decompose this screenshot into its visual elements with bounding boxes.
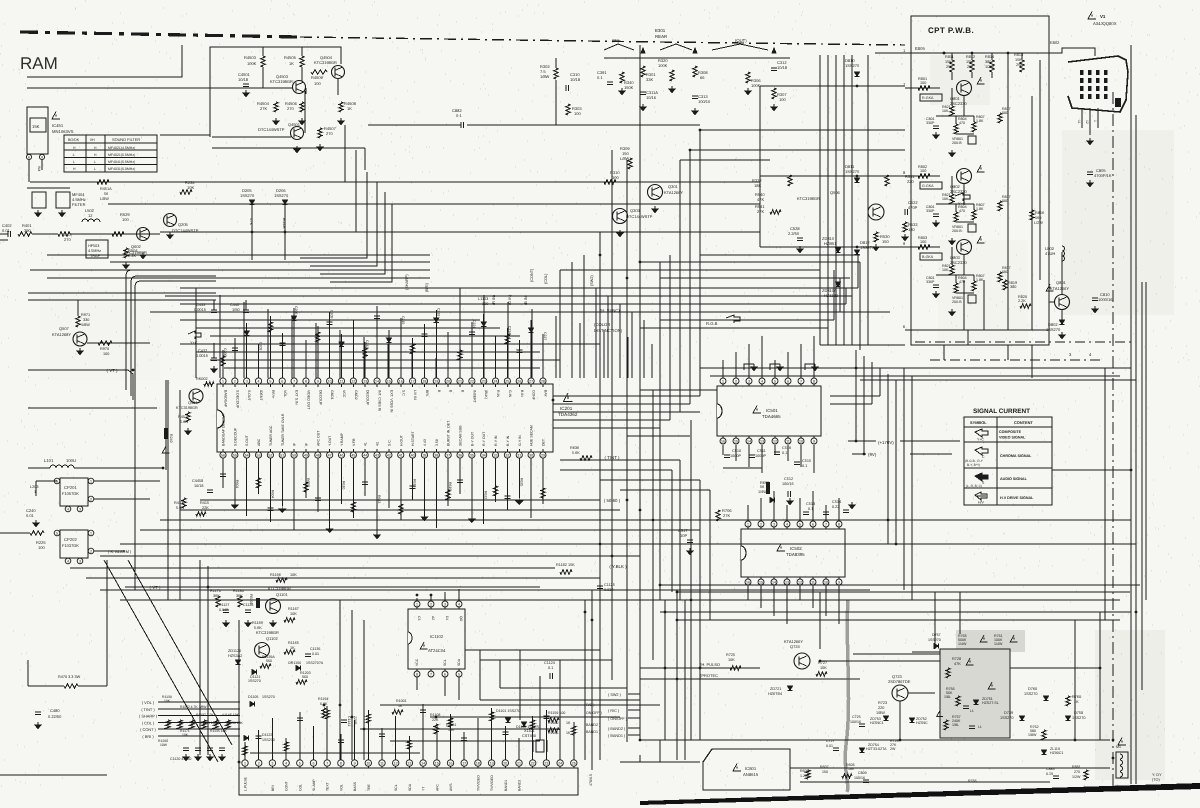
svg-text:10K: 10K bbox=[728, 658, 735, 662]
svg-text:MF4021(5.5MHz): MF4021(5.5MHz) bbox=[108, 153, 135, 157]
svg-text:9: 9 bbox=[813, 439, 815, 443]
transistor Q507 bbox=[73, 332, 87, 346]
svg-text:30: 30 bbox=[529, 453, 533, 457]
svg-text:BURST IN. DET.: BURST IN. DET. bbox=[447, 420, 451, 446]
svg-text:7: 7 bbox=[800, 379, 802, 383]
svg-text:KTC3198GR: KTC3198GR bbox=[270, 79, 293, 84]
IC801 body bbox=[703, 749, 790, 790]
capacitor C522 bbox=[904, 209, 906, 215]
IC501 label bbox=[753, 406, 761, 414]
svg-text:CP201: CP201 bbox=[64, 485, 77, 490]
svg-text:11: 11 bbox=[1077, 120, 1081, 124]
capacitor C313 bbox=[692, 95, 698, 97]
svg-text:4: 4 bbox=[67, 559, 69, 563]
svg-text:1SS270?A: 1SS270?A bbox=[306, 661, 324, 665]
transistor Q404 bbox=[189, 389, 203, 403]
diode D802 bbox=[1059, 320, 1064, 325]
svg-text:2: 2 bbox=[430, 602, 432, 606]
svg-text:100: 100 bbox=[482, 302, 488, 306]
transistor Q303 bbox=[613, 209, 628, 224]
filter MF404 bbox=[32, 192, 46, 208]
svg-text:9: 9 bbox=[41, 155, 43, 159]
svg-text:KTC3198GR: KTC3198GR bbox=[797, 196, 820, 201]
svg-text:COMPOSITE: COMPOSITE bbox=[999, 430, 1022, 434]
svg-text:47UH: 47UH bbox=[1045, 251, 1055, 256]
diode D758 bbox=[1065, 716, 1070, 721]
svg-text:8: 8 bbox=[813, 379, 815, 383]
svg-text:0.1: 0.1 bbox=[597, 75, 603, 80]
svg-text:5: 5 bbox=[458, 672, 460, 676]
svg-text:C1124: C1124 bbox=[544, 661, 555, 665]
capacitor C1135 bbox=[305, 653, 311, 655]
capacitor C528 bbox=[797, 237, 803, 239]
svg-text:1: 1 bbox=[90, 479, 92, 483]
svg-text:2.2K: 2.2K bbox=[1018, 299, 1026, 303]
gray streak scan artifact bbox=[845, 600, 848, 792]
svg-text:1K: 1K bbox=[289, 61, 294, 66]
svg-text:1: 1 bbox=[1093, 120, 1097, 122]
svg-text:2SD786TDE: 2SD786TDE bbox=[888, 679, 911, 684]
IC501 top pins bbox=[720, 378, 726, 384]
svg-text:D1102 1SS270: D1102 1SS270 bbox=[516, 725, 540, 729]
svg-text:R4509: R4509 bbox=[311, 75, 324, 80]
svg-text:HZS9C1: HZS9C1 bbox=[870, 721, 884, 725]
capacitor C727 bbox=[833, 747, 839, 749]
svg-text:11: 11 bbox=[380, 761, 384, 765]
wire VT row bbox=[125, 586, 540, 588]
svg-text:(+170V): (+170V) bbox=[878, 440, 894, 445]
svg-text:C1141: C1141 bbox=[347, 716, 351, 726]
svg-text:MF4021(4.5MHz): MF4021(4.5MHz) bbox=[108, 146, 135, 150]
svg-text:R1169: R1169 bbox=[252, 621, 263, 625]
svg-text:10: 10 bbox=[366, 761, 370, 765]
svg-text:2: 2 bbox=[258, 761, 260, 765]
svg-text:R723: R723 bbox=[878, 701, 887, 705]
svg-text:5: 5 bbox=[269, 379, 271, 383]
resistor R803 bbox=[918, 245, 930, 249]
svg-text:C1120 4.7/50: C1120 4.7/50 bbox=[170, 757, 191, 761]
svg-text:R1165: R1165 bbox=[288, 641, 299, 645]
svg-text:1/2W: 1/2W bbox=[1072, 775, 1081, 779]
svg-text:2SC2330: 2SC2330 bbox=[950, 101, 967, 106]
svg-text:330P: 330P bbox=[926, 280, 935, 284]
svg-text:6: 6 bbox=[281, 379, 283, 383]
svg-text:R-Y OUT: R-Y OUT bbox=[482, 431, 486, 446]
svg-text:21: 21 bbox=[458, 379, 462, 383]
svg-text:27K: 27K bbox=[723, 513, 730, 518]
svg-text:25: 25 bbox=[505, 379, 509, 383]
IC1102 top pins bbox=[414, 601, 420, 607]
svg-text:SCL: SCL bbox=[394, 784, 398, 791]
svg-text:33K: 33K bbox=[646, 77, 653, 82]
svg-text:4: 4 bbox=[786, 522, 788, 526]
svg-text:1: 1 bbox=[722, 379, 724, 383]
svg-text:4: 4 bbox=[1089, 352, 1092, 357]
svg-text:BANDGAP: BANDGAP bbox=[224, 390, 228, 408]
svg-text:10/18: 10/18 bbox=[570, 77, 581, 82]
svg-text:~: ~ bbox=[878, 84, 882, 90]
svg-text:1: 1 bbox=[416, 602, 418, 606]
svg-text:ABC: ABC bbox=[257, 438, 261, 446]
svg-text:H.START: H.START bbox=[411, 430, 415, 446]
wire top rail bbox=[210, 47, 341, 137]
page border dash-dot top bbox=[20, 32, 300, 37]
svg-text:4.43: 4.43 bbox=[423, 439, 427, 446]
svg-text:BASS: BASS bbox=[353, 781, 357, 791]
CPT resistor R814 bbox=[990, 60, 994, 72]
shaded box main bbox=[940, 649, 1010, 738]
diode D1101 bbox=[505, 718, 510, 723]
wire bbox=[27, 187, 70, 189]
resistor R1170 bbox=[216, 596, 220, 607]
resistor R320 bbox=[670, 70, 674, 81]
wire PROTEC bbox=[640, 678, 860, 680]
transistor Q801 2SC2330 bbox=[957, 81, 972, 96]
svg-text:23: 23 bbox=[482, 379, 486, 383]
svg-text:20: 20 bbox=[446, 379, 450, 383]
svg-text:270: 270 bbox=[287, 106, 294, 111]
diode D810 bbox=[854, 72, 859, 77]
svg-text:BAND1: BAND1 bbox=[504, 780, 508, 791]
svg-text:220P: 220P bbox=[353, 716, 357, 725]
svg-text:MN1063VS: MN1063VS bbox=[52, 129, 74, 134]
svg-text:29: 29 bbox=[541, 453, 545, 457]
resistor R1180 bbox=[238, 596, 242, 607]
IC1101 pins bbox=[242, 760, 248, 766]
svg-text:H/V: H/V bbox=[978, 501, 985, 505]
svg-text:TRE: TRE bbox=[367, 783, 371, 791]
svg-text:(COL): (COL) bbox=[544, 273, 548, 284]
svg-text:C221: C221 bbox=[472, 320, 476, 328]
svg-text:L: L bbox=[94, 160, 96, 164]
svg-text:2W: 2W bbox=[946, 65, 952, 69]
transistor Q205 bbox=[164, 214, 177, 227]
svg-text:1SS270: 1SS270 bbox=[928, 638, 941, 642]
wire socket leads bbox=[1081, 108, 1083, 128]
svg-text:~: ~ bbox=[878, 174, 882, 180]
ground bbox=[225, 620, 227, 623]
svg-text:BAY.: BAY. bbox=[543, 390, 547, 397]
svg-text:R760: R760 bbox=[1072, 695, 1081, 699]
svg-text:1: 1 bbox=[244, 761, 246, 765]
svg-text:DECOUP: DECOUP bbox=[366, 390, 370, 406]
vertical bundle x820-868 bbox=[819, 55, 821, 345]
svg-text:M1: M1 bbox=[1116, 745, 1121, 749]
transistor Q1101 bbox=[266, 599, 281, 614]
diode D812 bbox=[854, 250, 859, 255]
svg-text:0.0015: 0.0015 bbox=[196, 353, 208, 358]
svg-text:S: S bbox=[982, 481, 985, 485]
svg-text:0.1: 0.1 bbox=[808, 507, 813, 511]
svg-text:IC1102: IC1102 bbox=[430, 634, 444, 639]
svg-text:B.IN: B.IN bbox=[520, 390, 524, 397]
svg-text:( R/C ): ( R/C ) bbox=[608, 709, 620, 713]
wire C882 rail bbox=[368, 124, 461, 126]
svg-text:L: L bbox=[73, 160, 75, 164]
svg-text:( COL ): ( COL ) bbox=[142, 720, 155, 725]
wire Q723 bus bbox=[908, 692, 935, 694]
svg-text:Q301: Q301 bbox=[668, 184, 679, 189]
svg-text:12: 12 bbox=[773, 439, 777, 443]
connector IC451 bbox=[27, 107, 48, 154]
zener ZD721 bbox=[787, 686, 792, 691]
svg-text:6: 6 bbox=[444, 672, 446, 676]
svg-text:1/50: 1/50 bbox=[232, 307, 240, 312]
CPT inner verticals bbox=[1007, 53, 1009, 330]
IC502 bottom pins bbox=[745, 579, 751, 585]
svg-text:2: 2 bbox=[735, 379, 737, 383]
svg-text:C1125: C1125 bbox=[604, 583, 615, 587]
IC502 body bbox=[741, 529, 845, 577]
svg-text:10K: 10K bbox=[942, 197, 949, 201]
svg-text:150K: 150K bbox=[624, 85, 634, 90]
svg-text:( BRI ): ( BRI ) bbox=[142, 734, 154, 739]
IC201 notch bbox=[217, 410, 224, 428]
svg-text:1/8L: 1/8L bbox=[952, 723, 959, 727]
svg-text:Q4501: Q4501 bbox=[288, 122, 301, 127]
label VT wire bbox=[28, 369, 128, 371]
svg-text:56: 56 bbox=[221, 453, 225, 457]
capacitor C1125 bbox=[597, 585, 603, 587]
svg-text:BAND1 ): BAND1 ) bbox=[586, 730, 600, 734]
svg-text:D757: D757 bbox=[932, 633, 941, 637]
ground bbox=[142, 252, 144, 255]
svg-text:100: 100 bbox=[38, 545, 45, 550]
svg-text:17: 17 bbox=[462, 761, 466, 765]
svg-text:S.DECOUP: S.DECOUP bbox=[235, 390, 239, 409]
svg-text:47K: 47K bbox=[757, 197, 764, 202]
label Y+C arrow bbox=[188, 331, 201, 339]
resistor R760 bbox=[1066, 696, 1070, 706]
svg-text:R728: R728 bbox=[952, 657, 961, 661]
IC502 bottom drops bbox=[747, 585, 749, 600]
svg-text:I/H: I/H bbox=[90, 138, 95, 142]
svg-text:AFC OUT: AFC OUT bbox=[316, 430, 320, 446]
wires CPT right area bbox=[1049, 301, 1054, 303]
svg-text:INSERT: INSERT bbox=[472, 390, 476, 404]
svg-text:Y.OUT: Y.OUT bbox=[328, 435, 332, 446]
svg-text:35: 35 bbox=[470, 453, 474, 457]
svg-text:46: 46 bbox=[340, 453, 344, 457]
node M1 bbox=[1112, 757, 1115, 760]
svg-text:Q507: Q507 bbox=[59, 326, 70, 331]
svg-text:3: 3 bbox=[271, 761, 273, 765]
svg-text:FILTER: FILTER bbox=[72, 202, 86, 207]
svg-text:15K: 15K bbox=[966, 60, 973, 64]
resistor R306 bbox=[746, 72, 750, 83]
svg-text:R470 3.3 3W: R470 3.3 3W bbox=[58, 675, 81, 679]
svg-text:220: 220 bbox=[907, 179, 914, 184]
svg-text:R.G.B: R.G.B bbox=[706, 321, 718, 326]
svg-text:R.IN: R.IN bbox=[496, 390, 500, 397]
wire H.PULSO bbox=[640, 667, 760, 669]
svg-text:10: 10 bbox=[328, 379, 332, 383]
svg-text:(G IN): (G IN) bbox=[508, 294, 512, 305]
svg-text:C209: C209 bbox=[330, 310, 334, 318]
svg-text:E805: E805 bbox=[915, 46, 925, 51]
svg-text:L/8W: L/8W bbox=[620, 156, 630, 161]
svg-text:100: 100 bbox=[122, 217, 129, 222]
svg-text:L.PULSE: L.PULSE bbox=[244, 776, 248, 791]
svg-text:270: 270 bbox=[326, 131, 333, 136]
svg-text:3: 3 bbox=[444, 602, 446, 606]
svg-text:CPT P.W.B.: CPT P.W.B. bbox=[928, 26, 974, 35]
svg-text:R1182 15K: R1182 15K bbox=[556, 563, 575, 567]
svg-text:(PROTEC: (PROTEC bbox=[700, 673, 718, 678]
resistor R301 bbox=[641, 66, 645, 77]
svg-text:13: 13 bbox=[407, 761, 411, 765]
svg-text:R1151: R1151 bbox=[446, 723, 456, 727]
vertical wire bbox=[1135, 115, 1137, 784]
svg-text:13: 13 bbox=[785, 580, 789, 584]
label G-GKA bbox=[920, 182, 942, 189]
CPT stage verticals to bottom rail bbox=[963, 280, 965, 330]
IC501 body bbox=[717, 386, 821, 436]
svg-text:IN4: IN4 bbox=[37, 166, 41, 171]
svg-text:100: 100 bbox=[920, 81, 926, 85]
svg-text:12: 12 bbox=[351, 379, 355, 383]
transistor Q4503 bbox=[293, 81, 306, 94]
CPT bottom drops bbox=[943, 345, 945, 360]
svg-text:5: 5 bbox=[774, 379, 776, 383]
svg-text:IC201: IC201 bbox=[560, 406, 573, 411]
bus wires below IC201 going right bbox=[200, 499, 600, 501]
svg-text:R4505: R4505 bbox=[284, 55, 297, 60]
svg-text:CONTENT: CONTENT bbox=[1014, 420, 1033, 425]
svg-text:HZS2T-SL: HZS2T-SL bbox=[982, 701, 999, 705]
svg-text:D1: D1 bbox=[445, 616, 449, 620]
svg-text:0-1: 0-1 bbox=[456, 113, 463, 118]
ground bbox=[654, 206, 656, 209]
svg-text:TUNER AGC: TUNER AGC bbox=[269, 425, 273, 446]
wire bbox=[555, 58, 557, 68]
svg-text:3: 3 bbox=[1069, 352, 1072, 357]
transistor Q301 bbox=[648, 185, 663, 200]
svg-text:L1: L1 bbox=[970, 709, 974, 713]
CRT socket shell bbox=[1068, 56, 1128, 112]
svg-text:22K: 22K bbox=[432, 718, 439, 722]
svg-text:5.6K: 5.6K bbox=[572, 451, 580, 455]
svg-text:4: 4 bbox=[761, 379, 763, 383]
svg-text:1/4W: 1/4W bbox=[758, 490, 767, 494]
svg-text:15: 15 bbox=[759, 580, 763, 584]
svg-text:R613: R613 bbox=[377, 495, 381, 503]
svg-text:Q1102: Q1102 bbox=[266, 636, 278, 641]
transistor Q4504 bbox=[332, 66, 345, 79]
caps row controls bbox=[183, 747, 189, 749]
svg-text:VCC: VCC bbox=[342, 390, 346, 398]
warning triangle bbox=[1118, 738, 1126, 746]
svg-text:15: 15 bbox=[435, 761, 439, 765]
svg-text:32: 32 bbox=[505, 453, 509, 457]
svg-text:EXT S.IN: EXT S.IN bbox=[295, 390, 299, 405]
svg-text:R1166: R1166 bbox=[270, 573, 281, 577]
bus verticals above IC201 bbox=[195, 288, 197, 378]
svg-text:1: 1 bbox=[90, 531, 92, 535]
svg-text:1: 1 bbox=[747, 522, 749, 526]
svg-text:5: 5 bbox=[299, 761, 301, 765]
resistor R4504 bbox=[274, 102, 278, 112]
svg-text:L: L bbox=[73, 153, 75, 157]
svg-text:( K. ALARM ): ( K. ALARM ) bbox=[108, 549, 132, 554]
svg-text:27: 27 bbox=[529, 379, 533, 383]
svg-text:TDA4665: TDA4665 bbox=[762, 414, 781, 419]
sound filter table bbox=[64, 135, 157, 172]
diode ZD752 bbox=[909, 718, 914, 723]
svg-text:KTA1266Y: KTA1266Y bbox=[784, 639, 803, 644]
resistor R971 bbox=[76, 316, 80, 327]
svg-text:( TINT ): ( TINT ) bbox=[141, 707, 155, 712]
svg-text:R240: R240 bbox=[169, 434, 173, 443]
svg-text:41: 41 bbox=[364, 442, 368, 446]
svg-text:R604: R604 bbox=[270, 490, 274, 498]
svg-text:C516: C516 bbox=[782, 446, 791, 450]
svg-text:C1127: C1127 bbox=[219, 603, 229, 607]
svg-text:D1101 1SS270: D1101 1SS270 bbox=[496, 709, 520, 713]
wire bbox=[87, 342, 150, 344]
svg-text:ON/OFF ): ON/OFF ) bbox=[586, 711, 602, 715]
IC501 top risers bbox=[722, 360, 724, 378]
svg-text:2: 2 bbox=[760, 522, 762, 526]
svg-text:16: 16 bbox=[449, 761, 453, 765]
svg-text:( ON/OFF ): ( ON/OFF ) bbox=[608, 717, 628, 721]
wire bbox=[0, 239, 8, 241]
svg-text:CST400: CST400 bbox=[522, 734, 536, 738]
resistor R309 bbox=[628, 158, 632, 169]
svg-text:560: 560 bbox=[266, 659, 272, 663]
svg-text:HUE SECAM: HUE SECAM bbox=[530, 425, 534, 446]
svg-text:0.1: 0.1 bbox=[802, 464, 807, 468]
svg-text:42: 42 bbox=[387, 453, 391, 457]
svg-text:15: 15 bbox=[734, 439, 738, 443]
bus wires upper middle bbox=[364, 148, 366, 170]
wire bbox=[951, 53, 953, 60]
svg-text:2: 2 bbox=[90, 497, 92, 501]
wire corner top right bbox=[1094, 48, 1096, 56]
svg-text:R1194: R1194 bbox=[318, 697, 328, 701]
wire bottom left horizontal bbox=[0, 774, 107, 776]
svg-text:SDA: SDA bbox=[457, 658, 461, 666]
zener ZD810 bbox=[835, 248, 840, 253]
svg-text:( SHARP ): ( SHARP ) bbox=[139, 714, 158, 719]
svg-text:R1180: R1180 bbox=[233, 589, 244, 593]
svg-text:( VT ): ( VT ) bbox=[107, 368, 118, 373]
svg-text:38: 38 bbox=[434, 453, 438, 457]
svg-text:B: B bbox=[461, 390, 465, 393]
svg-text:TUNER TAKE OVLR: TUNER TAKE OVLR bbox=[281, 413, 285, 446]
svg-text:(9V): (9V) bbox=[868, 452, 877, 457]
svg-text:A34JQQ80X: A34JQQ80X bbox=[1093, 21, 1117, 26]
svg-text:BAND2: BAND2 bbox=[518, 780, 522, 791]
wire bbox=[128, 370, 133, 400]
svg-text:66: 66 bbox=[700, 75, 705, 80]
svg-text:45: 45 bbox=[351, 453, 355, 457]
wire bbox=[200, 87, 293, 89]
IC501 bottom pins bbox=[720, 438, 726, 444]
svg-text:C514: C514 bbox=[832, 500, 841, 504]
svg-text:0.1: 0.1 bbox=[782, 451, 787, 455]
svg-text:SYMBOL: SYMBOL bbox=[970, 420, 987, 425]
svg-text:11: 11 bbox=[786, 439, 790, 443]
svg-text:100/16: 100/16 bbox=[850, 720, 861, 724]
svg-text:470: 470 bbox=[959, 121, 965, 125]
svg-text:478/6.5: 478/6.5 bbox=[589, 774, 593, 786]
svg-text:10K: 10K bbox=[942, 268, 949, 272]
svg-text:330: 330 bbox=[83, 318, 89, 322]
svg-text:9: 9 bbox=[317, 379, 319, 383]
IC502 top risers bbox=[747, 505, 749, 521]
connector CP201 bbox=[60, 478, 88, 506]
